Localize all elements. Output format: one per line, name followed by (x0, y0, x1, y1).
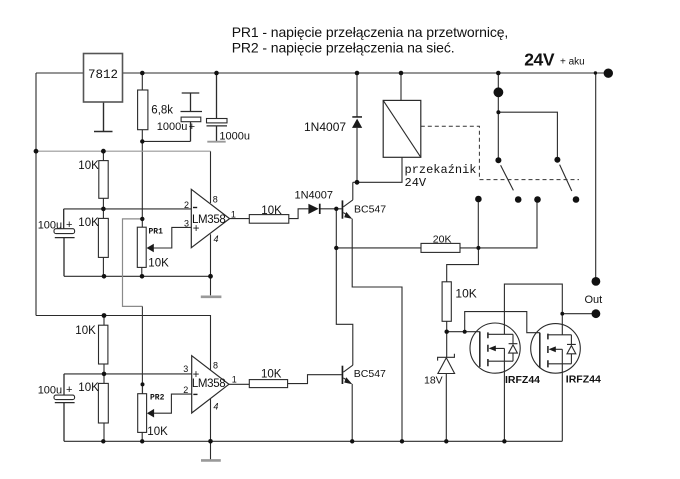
svg-text:Out: Out (585, 294, 603, 306)
svg-text:24V: 24V (524, 50, 555, 70)
svg-text:1N4007: 1N4007 (295, 190, 334, 202)
svg-text:7812: 7812 (88, 68, 118, 82)
svg-text:IRFZ44: IRFZ44 (566, 373, 601, 385)
svg-text:10K: 10K (261, 369, 282, 381)
svg-text:1000u: 1000u (219, 130, 250, 142)
svg-text:100u: 100u (38, 384, 62, 396)
svg-text:10K: 10K (78, 160, 99, 172)
svg-text:10K: 10K (78, 382, 99, 394)
svg-text:1N4007: 1N4007 (304, 120, 346, 134)
svg-text:8: 8 (213, 195, 218, 205)
svg-text:PR2: PR2 (150, 393, 165, 402)
svg-text:3: 3 (184, 218, 189, 228)
svg-text:PR1: PR1 (149, 228, 164, 237)
svg-text:1000u: 1000u (157, 121, 188, 133)
svg-text:10K: 10K (78, 217, 99, 229)
svg-text:4: 4 (214, 234, 219, 244)
svg-text:10K: 10K (75, 325, 96, 337)
svg-text:przekaźnik: przekaźnik (405, 163, 477, 177)
svg-text:+: + (66, 384, 72, 396)
svg-text:+: + (193, 369, 200, 381)
svg-text:+: + (193, 223, 200, 235)
svg-text:8: 8 (213, 361, 218, 371)
svg-text:IRFZ44: IRFZ44 (505, 374, 540, 386)
svg-text:10K: 10K (261, 205, 282, 217)
svg-text:10K: 10K (455, 287, 476, 301)
svg-text:1: 1 (231, 210, 236, 220)
svg-text:24V: 24V (405, 176, 427, 190)
svg-text:BC547: BC547 (354, 368, 386, 380)
svg-text:3: 3 (183, 364, 188, 374)
svg-text:PR1 - napięcie przełączenia na: PR1 - napięcie przełączenia na przetworn… (232, 24, 509, 40)
svg-text:20K: 20K (433, 233, 452, 245)
svg-text:1: 1 (232, 374, 237, 384)
svg-text:2: 2 (183, 385, 188, 395)
svg-text:PR2 - napięcie przełączenia na: PR2 - napięcie przełączenia na sieć. (232, 40, 455, 56)
svg-text:+ aku: + aku (560, 57, 585, 68)
svg-text:100u: 100u (38, 219, 62, 231)
svg-text:2: 2 (184, 200, 189, 210)
svg-text:18V: 18V (424, 374, 443, 386)
svg-text:10K: 10K (148, 257, 169, 269)
svg-text:4: 4 (213, 402, 218, 412)
svg-text:10K: 10K (147, 426, 168, 438)
svg-text:+: + (66, 219, 72, 231)
svg-text:6,8k: 6,8k (151, 104, 173, 116)
svg-text:+: + (189, 121, 195, 133)
svg-text:BC547: BC547 (354, 203, 386, 215)
